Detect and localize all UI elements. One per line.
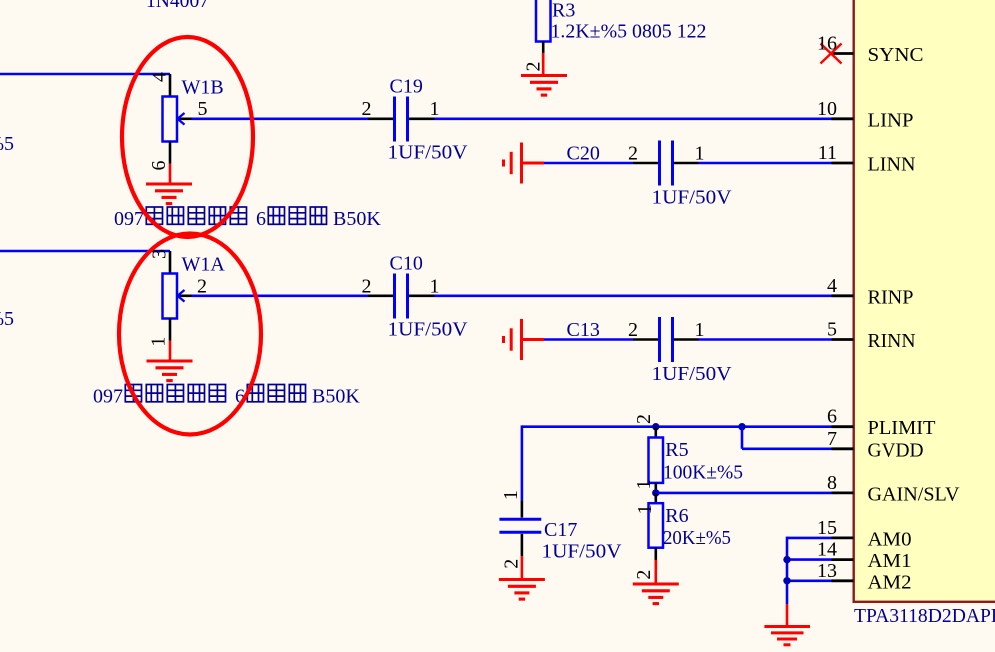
svg-text:1UF/50V: 1UF/50V (652, 363, 733, 385)
svg-text:W1B: W1B (182, 77, 224, 99)
svg-text:2: 2 (628, 319, 638, 341)
pin name RINN (868, 330, 916, 352)
pin name PLIMIT (868, 417, 936, 439)
wire C19 to LINP (435, 118, 832, 121)
svg-text:20K±%5: 20K±%5 (663, 527, 731, 549)
svg-text:11: 11 (818, 142, 837, 164)
capacitor C20 (628, 141, 705, 186)
wire AM2 (787, 579, 832, 582)
svg-text:%5: %5 (0, 308, 14, 330)
pin name GAIN/SLV (868, 483, 961, 505)
value 1UF/50V (C20) (652, 186, 733, 208)
ground (C17) (499, 580, 545, 600)
ground (C13 left, rotated) (504, 319, 545, 360)
designator C20 (567, 142, 600, 164)
pin name GVDD (868, 439, 924, 461)
pin 13 AM2 (817, 560, 854, 582)
junction (AM2) (783, 577, 790, 584)
ground (AM net) (764, 627, 810, 645)
value 100K±%5 (663, 462, 743, 484)
wire to W1B pin 4 (0, 73, 170, 76)
svg-text:2: 2 (362, 275, 372, 297)
value 1UF/50V (C13) (652, 363, 733, 385)
svg-text:2: 2 (633, 570, 655, 580)
svg-text:15: 15 (817, 517, 837, 539)
svg-text:6: 6 (148, 161, 170, 171)
svg-text:C17: C17 (544, 519, 577, 541)
svg-text:1: 1 (147, 337, 169, 347)
svg-text:6: 6 (256, 208, 266, 230)
pin name LINP (868, 109, 914, 131)
svg-text:AM1: AM1 (868, 550, 912, 572)
wire gnd to C13 (544, 338, 633, 341)
red wire W1B pin6 to ground (169, 164, 172, 185)
capacitor C10 (362, 274, 440, 319)
svg-text:2: 2 (501, 559, 523, 569)
wire W1A wiper to C10 (192, 294, 369, 297)
designator R3 (552, 0, 575, 22)
wire GVDD branch (742, 427, 832, 449)
svg-text:1: 1 (430, 275, 440, 297)
ground (C20 left, rotated) (504, 143, 545, 184)
svg-text:7: 7 (827, 428, 837, 450)
wire AM0 (787, 537, 832, 604)
junction (AM1) (783, 556, 790, 563)
svg-text:1UF/50V: 1UF/50V (542, 541, 623, 563)
svg-text:4: 4 (149, 72, 171, 82)
svg-text:100K±%5: 100K±%5 (663, 462, 743, 484)
junction (GVDD branch) (738, 423, 745, 430)
svg-text:C20: C20 (567, 142, 600, 164)
svg-text:5: 5 (827, 319, 837, 341)
pin 15 AM0 (817, 517, 854, 539)
label 097 dual potentiometer B50K (W1B) (114, 207, 381, 230)
capacitor C19 (362, 97, 440, 142)
svg-text:1: 1 (695, 319, 705, 341)
svg-text:097: 097 (114, 208, 144, 230)
pin name AM2 (868, 571, 912, 593)
value label %5 (left edge, W1A row) (0, 308, 14, 330)
svg-text:2: 2 (523, 62, 545, 72)
svg-text:2: 2 (628, 142, 638, 164)
value 20K±%5 (663, 527, 731, 549)
designator W1B (182, 77, 224, 99)
capacitor C17 (499, 490, 541, 569)
pin 16 SYNC no-connect X (817, 33, 854, 64)
resistor R3 (523, 0, 551, 72)
svg-text:14: 14 (817, 539, 837, 561)
wire GAIN/SLV (656, 492, 832, 495)
value 1UF/50V (C19) (388, 142, 469, 164)
svg-text:1UF/50V: 1UF/50V (388, 319, 469, 341)
pin 5 RINN (827, 319, 854, 341)
junction (R5.2 on PLIMIT wire) (652, 423, 659, 430)
junction (R5.1/R6.1/GAIN) (652, 489, 659, 496)
red wire R6 to ground (654, 560, 657, 584)
svg-text:1: 1 (500, 490, 522, 500)
svg-text:R6: R6 (665, 505, 688, 527)
pin name RINP (868, 286, 914, 308)
svg-text:5: 5 (198, 98, 208, 120)
pin 8 GAIN/SLV (827, 472, 854, 494)
pin 7 GVDD (827, 428, 854, 450)
potentiometer W1B (148, 72, 208, 171)
potentiometer W1A (147, 249, 207, 347)
resistor R6 (633, 493, 663, 580)
annotation ellipse (W1A) (119, 234, 261, 435)
svg-text:1.2K±%5 0805 122: 1.2K±%5 0805 122 (551, 21, 707, 43)
annotation ellipse (W1B) (122, 37, 253, 237)
ground (R3) (521, 76, 567, 96)
svg-text:16: 16 (817, 33, 837, 55)
pin name AM1 (868, 550, 912, 572)
designator W1A (182, 254, 226, 276)
red wire AM net to ground (786, 604, 789, 627)
svg-text:PLIMIT: PLIMIT (868, 417, 936, 439)
svg-text:TPA3118D2DAPR: TPA3118D2DAPR (854, 605, 995, 627)
svg-text:2: 2 (633, 414, 655, 424)
svg-text:13: 13 (817, 560, 837, 582)
designator C13 (567, 319, 600, 341)
wire gnd to C20 (544, 162, 633, 165)
wire to W1A pin 3 (0, 250, 170, 253)
designator C17 (544, 519, 577, 541)
designator C10 (390, 253, 423, 275)
label 097 dual potentiometer B50K (W1A) (93, 385, 360, 408)
designator C19 (390, 76, 423, 98)
svg-text:AM2: AM2 (868, 571, 912, 593)
svg-text:RINP: RINP (868, 286, 914, 308)
svg-text:2: 2 (362, 98, 372, 120)
svg-text:GAIN/SLV: GAIN/SLV (868, 483, 961, 505)
svg-text:4: 4 (827, 275, 837, 297)
ground (R6) (633, 584, 679, 604)
red wire R3 to ground (542, 53, 545, 76)
pin 6 PLIMIT (827, 406, 854, 428)
svg-text:RINN: RINN (868, 330, 916, 352)
op-amp U1 TPA3118 IC body (854, 0, 995, 602)
svg-text:SYNC: SYNC (868, 44, 924, 66)
ground (W1A) (147, 361, 193, 381)
pin name LINN (868, 154, 916, 176)
svg-text:097: 097 (93, 386, 123, 408)
svg-text:1: 1 (430, 98, 440, 120)
part number TPA3118D2DAPR (854, 605, 995, 627)
svg-text:W1A: W1A (182, 254, 226, 276)
wire C13 to RINN (699, 338, 832, 341)
designator R6 (665, 505, 688, 527)
svg-text:R5: R5 (665, 439, 688, 461)
svg-text:1: 1 (633, 480, 655, 490)
pin 14 AM1 (817, 539, 854, 561)
pin name AM0 (868, 528, 912, 550)
wire C20 to LINN (699, 162, 832, 165)
svg-text:1N4007: 1N4007 (146, 0, 209, 12)
svg-text:10: 10 (817, 98, 837, 120)
red wire C17 to ground (521, 556, 524, 580)
svg-text:GVDD: GVDD (868, 439, 924, 461)
capacitor C13 (628, 317, 705, 362)
pin 11 LINN (818, 142, 854, 164)
pin 10 LINP (817, 98, 854, 120)
svg-text:B50K: B50K (333, 208, 381, 230)
pin 4 RINP (827, 275, 854, 297)
svg-text:1: 1 (695, 142, 705, 164)
svg-text:1: 1 (634, 504, 656, 514)
wire AM1 (787, 558, 832, 561)
value label %5 (left edge, W1B row) (0, 133, 14, 155)
svg-text:1UF/50V: 1UF/50V (388, 142, 469, 164)
svg-text:8: 8 (827, 472, 837, 494)
svg-text:C19: C19 (390, 76, 423, 98)
svg-text:AM0: AM0 (868, 528, 912, 550)
ground (W1B) (146, 184, 192, 204)
svg-text:%5: %5 (0, 133, 14, 155)
wire C10 to RINP (435, 294, 832, 297)
red wire W1A pin1 to ground (169, 341, 172, 362)
svg-text:C13: C13 (567, 319, 600, 341)
svg-text:LINN: LINN (868, 154, 916, 176)
svg-text:LINP: LINP (868, 109, 914, 131)
svg-text:6: 6 (827, 406, 837, 428)
value 1UF/50V (C17) (542, 541, 623, 563)
wire W1B wiper to C19 (192, 118, 369, 121)
svg-text:B50K: B50K (312, 386, 360, 408)
svg-text:1UF/50V: 1UF/50V (652, 186, 733, 208)
svg-text:2: 2 (197, 275, 207, 297)
svg-text:C10: C10 (390, 253, 423, 275)
wire PLIMIT net (522, 425, 832, 500)
pin name SYNC (868, 44, 924, 66)
resistor R5 (633, 414, 663, 493)
svg-text:R3: R3 (552, 0, 575, 22)
value 1.2K±%5 0805 122 (551, 21, 707, 43)
designator R5 (665, 439, 688, 461)
value 1UF/50V (C10) (388, 319, 469, 341)
diode label 1N4007 (146, 0, 209, 12)
